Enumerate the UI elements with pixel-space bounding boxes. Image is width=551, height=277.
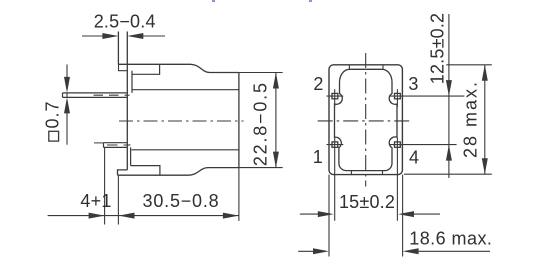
svg-text:4: 4 xyxy=(409,147,419,167)
dimension 0.7 line across pin xyxy=(66,93,68,98)
extension line body right bottom xyxy=(238,168,240,221)
pin 1 crosshair and 15 extension xyxy=(327,138,344,221)
dimension 28 max. extension bottom xyxy=(404,173,492,175)
svg-text:1: 1 xyxy=(313,147,323,167)
left view upper pin xyxy=(63,93,128,98)
right view inner outline with pin cutouts xyxy=(335,69,398,170)
dimension 0.7 line upper xyxy=(66,65,68,91)
dimension 18.6 extension left xyxy=(328,175,330,257)
svg-text:2: 2 xyxy=(313,74,323,94)
pin 3 square xyxy=(395,93,401,98)
left view upper pin dashed centerline xyxy=(94,94,130,96)
extension line pin end xyxy=(104,148,106,225)
pin 1 square xyxy=(332,142,338,147)
svg-text:30.5−0.8: 30.5−0.8 xyxy=(143,191,220,211)
pin 3 crosshair and 12.5 extension xyxy=(389,89,465,106)
right view top ticks xyxy=(349,65,383,70)
dimension 4+1 / 30.5-0.8 line xyxy=(48,215,239,217)
dimension 28 max. arrows xyxy=(482,65,488,174)
left view flange right / body left edge xyxy=(126,32,128,170)
left view body top edge with chamfer xyxy=(118,64,238,72)
dimension 18.6 lines xyxy=(298,250,490,252)
left view body right edge xyxy=(238,73,240,168)
left view inner step bottom xyxy=(131,166,160,176)
left view lower pin xyxy=(104,143,128,148)
dimension 12.5±0.2 line xyxy=(448,14,450,178)
left view lower pin stub line xyxy=(94,142,104,144)
dimension 15±0.2 arrows xyxy=(318,211,414,217)
dimension 0.7 arrows xyxy=(64,77,70,114)
dimension 0.7 square symbol xyxy=(49,131,59,141)
dimension 22.8-0.5 arrows xyxy=(273,73,279,168)
right view bottom ticks xyxy=(351,171,382,175)
dimension 22.8-0.5 extension bottom xyxy=(239,167,283,169)
dimension 18.6 arrows xyxy=(313,248,419,254)
dimension 2.5-0.4 lines xyxy=(82,35,165,37)
svg-text:3: 3 xyxy=(408,74,418,94)
dimension 28 max. line xyxy=(484,65,486,174)
left view inner horizontal upper xyxy=(132,89,239,91)
svg-text:22.8−0.5: 22.8−0.5 xyxy=(251,81,271,166)
left view flange hook xyxy=(119,64,128,70)
left view inner vertical top xyxy=(131,71,133,93)
dimension 15±0.2 lines xyxy=(300,213,440,215)
svg-text:28 max.: 28 max. xyxy=(460,80,480,158)
cropped blue text remnant top xyxy=(212,0,312,2)
right view horizontal center line xyxy=(318,120,412,122)
dimension 28 max. extension top xyxy=(446,64,492,66)
svg-text:0.7: 0.7 xyxy=(43,100,63,128)
dimension 22.8-0.5 extension top xyxy=(239,72,283,74)
left view lower pin dashed centerline xyxy=(107,144,131,146)
left view inner step top xyxy=(132,64,160,74)
pin 2 square xyxy=(332,93,338,98)
dimension 12.5±0.2 arrows xyxy=(446,80,452,161)
left view flange left line xyxy=(117,32,119,65)
svg-text:2.5−0.4: 2.5−0.4 xyxy=(94,11,156,31)
left view inner vertical bottom xyxy=(130,147,132,165)
dimension 2.5-0.4 arrows xyxy=(102,33,143,39)
dimension 22.8-0.5 line xyxy=(275,73,277,168)
dimension bottom arrows xyxy=(89,213,239,219)
dimension 18.6 extension right xyxy=(402,175,404,257)
left view body bottom-right edge with chamfer xyxy=(118,168,239,176)
right view outer outline xyxy=(329,65,402,175)
left view inner horizontal lower xyxy=(132,149,239,151)
svg-text:12.5±0.2: 12.5±0.2 xyxy=(427,13,447,85)
dimension 0.7 line lower xyxy=(66,100,68,145)
left view center line xyxy=(119,120,244,122)
left view bottom-left notch xyxy=(118,170,128,175)
svg-text:4+1: 4+1 xyxy=(80,191,111,211)
svg-text:15±0.2: 15±0.2 xyxy=(339,192,395,212)
pin 2 crosshair xyxy=(327,89,344,106)
right view vertical center line xyxy=(365,53,367,187)
pin 4 crosshair and extensions xyxy=(389,138,457,221)
svg-text:18.6 max.: 18.6 max. xyxy=(409,228,492,248)
pin 4 square xyxy=(395,142,401,147)
extension line flange left bottom xyxy=(117,176,119,225)
